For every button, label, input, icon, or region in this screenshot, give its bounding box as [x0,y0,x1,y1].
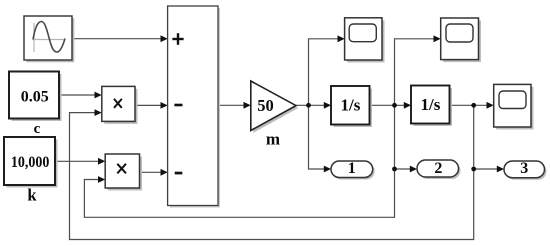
svg-text:50: 50 [257,96,274,115]
integrator block I1 [331,86,372,127]
junction node after gain [306,103,311,108]
junction node position main [471,103,476,108]
outport tag 2 [417,160,461,179]
wire position feedback to product P1 bottom input [70,109,474,239]
svg-text:2: 2 [434,160,442,177]
svg-text:c: c [34,121,41,137]
outport tag 3 [504,160,547,180]
wire constant c to product P1 top input [60,92,102,99]
svg-text:m: m [266,129,280,148]
gain block 50 [251,81,298,133]
sum block [168,6,220,208]
wire product P2 to sum minus2 input [140,169,168,176]
junction node velocity tag branch [392,167,397,172]
svg-text:1: 1 [348,160,356,177]
constant block 10,000 [4,137,58,188]
svg-text:k: k [27,185,37,204]
wire integrator I1 to integrator I2 [370,102,412,109]
wire integrator I2 to scope S3 [450,102,494,109]
product block P1 [102,86,138,124]
wire product P1 to sum minus1 input [135,102,168,109]
scope block S2 [441,18,481,62]
wire sum output to gain [218,102,251,109]
sine wave source block [24,16,74,62]
svg-text:1/s: 1/s [420,95,440,114]
wire gain output to integrator I1 [296,102,331,109]
junction node velocity main [392,103,397,108]
wire sine to sum plus input [72,35,168,42]
scope block S3 [494,84,534,129]
wire gain node up to scope S1 [309,35,345,105]
outport tag 1 [331,160,375,179]
constant block 0.05 [9,72,62,122]
wire gain node down to outport tag 1 [309,105,332,172]
wire position node down to outport tag 3 [474,105,504,172]
svg-text:3: 3 [520,160,528,177]
wire velocity feedback to product P2 bottom input [84,169,394,217]
junction node position tag branch [471,167,476,172]
integrator block I2 [411,86,452,127]
svg-text:10,000: 10,000 [11,154,50,171]
wire velocity node down to outport tag 2 [395,105,418,172]
svg-text:0.05: 0.05 [21,88,49,105]
scope block S1 [345,18,385,63]
product block P2 [105,154,142,191]
svg-text:1/s: 1/s [340,96,360,115]
wire constant k to product P2 top input [55,158,105,165]
wire velocity node up to scope S2 [395,35,441,105]
